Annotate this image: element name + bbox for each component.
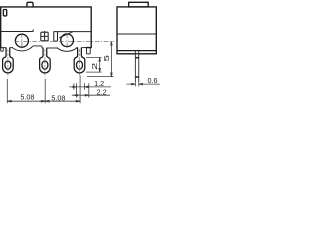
right view interior line [117,33,156,35]
hole centerline horizontal [15,40,114,42]
svg-text:5.08: 5.08 [20,93,34,102]
left foot [1,48,4,52]
bottom edge right section [77,47,87,49]
right view terminal pin [135,51,138,83]
svg-text:2.2: 2.2 [97,88,107,97]
hole centerline vertical 2 [66,34,68,48]
dimension 2.2 [72,94,110,96]
dimension: extension lines bottom [7,76,89,104]
bottom edge left section [1,47,13,49]
svg-text:0.6: 0.6 [148,76,158,85]
terminal 1 [3,48,14,73]
right foot [87,48,91,54]
boss arc under hole 1 [13,48,32,51]
right view base line [117,50,156,52]
bottom notch [31,46,43,48]
terminal 3 [74,48,85,73]
mounting hole 1 [15,34,28,47]
right view: body outline [117,7,156,54]
mounting hole 2 [61,34,74,47]
dimension 5.08 first [7,100,45,102]
plunger button on top of left view [27,2,33,7]
interior lever diagonal [59,32,73,38]
boss arc under hole 2 [57,48,76,51]
dimension 5.08 second [45,100,80,102]
dimension 2 vertical [86,58,102,73]
svg-text:2: 2 [91,62,98,69]
interior window with cross [41,31,48,41]
terminal 2 [40,48,51,73]
left view: switch body outline [1,7,92,54]
interior pocket [54,32,58,42]
small rectangular hole top-left [3,10,6,16]
right view button [129,2,149,7]
dimension 5 vertical [87,41,114,76]
dimension 1.2 [69,86,111,88]
bottom edge mid section [47,47,58,49]
interior horizontal line [1,29,34,31]
dimension 0.6 [127,83,160,87]
hole centerline vertical 1 [21,33,23,48]
svg-text:5.08: 5.08 [51,94,65,103]
svg-text:5: 5 [103,55,111,61]
